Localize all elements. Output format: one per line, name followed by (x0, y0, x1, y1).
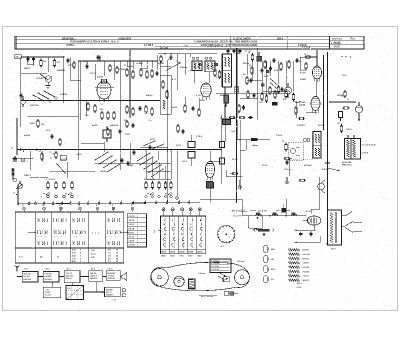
capacitor C6 (120, 158, 129, 166)
grid terminals (162, 208, 201, 216)
resistor R24 (282, 141, 287, 152)
svg-text:x 7n31 0a: x 7n31 0a (211, 260, 220, 262)
svg-text:3: 3 (229, 237, 230, 239)
cord drum (189, 279, 196, 289)
scattered value labels (24, 61, 352, 177)
svg-text:310275: 310275 (60, 159, 68, 161)
resistor R27 (295, 62, 307, 115)
svg-text:656.482: 656.482 (106, 288, 113, 291)
wire top bus right (158, 53, 217, 55)
svg-text:ajo n 750 mm: ajo n 750 mm (201, 296, 213, 298)
svg-text:2.3 K.1: 2.3 K.1 (129, 232, 135, 234)
svg-text:PU.: PU. (271, 279, 275, 281)
switch S4 arms (137, 140, 164, 177)
terminal circle top (237, 50, 240, 53)
svg-text:260 m: 260 m (297, 283, 303, 285)
svg-text:1.4 K.8: 1.4 K.8 (129, 240, 135, 243)
cord misc right (224, 291, 238, 295)
svg-text:39 64: 39 64 (274, 69, 280, 72)
svg-text:M5MM6: M5MM6 (57, 70, 66, 72)
wire right bus (324, 52, 328, 212)
svg-text:658760: 658760 (303, 258, 309, 260)
resistor R10 group (124, 105, 142, 122)
svg-text:4.03: 4.03 (72, 260, 76, 263)
wire vertical x81 (80, 61, 82, 120)
capacitor C4 (13, 156, 27, 163)
hatched box HB1 (235, 87, 239, 94)
cluster top mid-right (229, 116, 253, 119)
resistor R1 (40, 59, 46, 68)
capacitor C2 (19, 93, 22, 100)
svg-text:31: 31 (116, 261, 118, 263)
resistor R8 pair (140, 68, 148, 79)
svg-text:08: 08 (116, 258, 118, 260)
labels under row1 (0, 0, 1, 1)
component box K1 (339, 112, 343, 122)
svg-text:HH2.602: HH2.602 (24, 279, 31, 281)
wire mesh vertical (27, 54, 300, 203)
cap row under header (185, 46, 251, 54)
block arrows row1 (17, 276, 106, 278)
label TR1 below (342, 162, 352, 167)
junction row 2 (224, 60, 258, 87)
svg-text:9L5 40: 9L5 40 (306, 210, 312, 213)
ground G1 (46, 86, 51, 89)
svg-text:15c 3 7/8: 15c 3 7/8 (233, 215, 242, 217)
capacitor stack C13 (188, 135, 195, 166)
wire output top (200, 196, 320, 217)
svg-text:n826k6: n826k6 (118, 69, 126, 71)
resistor R21 (341, 90, 349, 109)
svg-text:78: 78 (116, 250, 118, 252)
cluster mid gap2 (177, 124, 185, 134)
svg-text:5pk84: 5pk84 (299, 104, 306, 107)
dial scale disc (217, 225, 236, 248)
svg-text:6k78n4: 6k78n4 (304, 164, 312, 167)
svg-text:64.29.32.2: 64.29.32.2 (332, 38, 343, 41)
resistor R12 pair (213, 67, 221, 79)
svg-text:... 35: ... 35 (45, 289, 49, 291)
svg-text:7083: 7083 (179, 256, 183, 258)
wire V3 anode (305, 50, 317, 66)
inductor L3 (269, 213, 278, 217)
block labels (24, 267, 112, 270)
svg-text:345p2n: 345p2n (180, 66, 188, 69)
svg-text:0.1 22 4n7: 0.1 22 4n7 (46, 178, 56, 181)
svg-text:3: 3 (80, 261, 81, 263)
svg-text:1.7 1 3 8: 1.7 1 3 8 (302, 47, 311, 49)
transistor Q1 (40, 74, 52, 85)
switch S2 arms (94, 151, 120, 172)
svg-text:7.3: 7.3 (108, 253, 111, 255)
cluster mid gap4 (50, 134, 68, 150)
label TR1 right (362, 145, 377, 155)
wire vertical x64 (63, 56, 65, 103)
svg-text:273n8V: 273n8V (36, 78, 44, 80)
resistor R3 (37, 119, 45, 128)
svg-text:p810: p810 (172, 107, 178, 109)
resistor R20 (292, 93, 300, 103)
svg-text:812236: 812236 (303, 250, 309, 252)
wire mesh horizontal (12, 49, 317, 180)
svg-text:ULTRA ...: ULTRA ... (66, 44, 77, 47)
svg-text:V9 0: V9 0 (342, 75, 347, 77)
diode D1 (285, 83, 292, 98)
svg-text:4: 4 (80, 252, 81, 255)
svg-text:36 6 .2: 36 6 .2 (106, 292, 112, 294)
svg-text:x.Moute: x.Moute (198, 261, 205, 264)
wire mid bus y170 (50, 155, 95, 178)
wire vert x78 (77, 61, 79, 160)
svg-text:1721: 1721 (176, 145, 182, 147)
cluster R17 (275, 85, 284, 96)
block diagram row1 (22, 271, 120, 283)
title block table (15, 34, 364, 50)
terminal left disc (13, 158, 17, 162)
legend box (210, 259, 231, 273)
wire top-left bus (21, 57, 64, 127)
svg-text:.6n15: .6n15 (76, 154, 82, 156)
svg-text:7URAANIIPPA 8 ULTRA N 637M.: 7URAANIIPPA 8 ULTRA N 637M.3 . N.A. 3 (70, 41, 119, 44)
svg-text:733z.75: 733z.75 (66, 273, 73, 275)
svg-text:XX 1: XX 1 (24, 268, 28, 270)
blob smear3 (261, 84, 264, 87)
svg-text:2940196: 2940196 (90, 277, 97, 280)
contact cluster CC1 (41, 193, 72, 199)
svg-text:ECH81: ECH81 (97, 77, 104, 79)
svg-text:21.03: 21.03 (91, 254, 96, 256)
dial switch grid (161, 216, 206, 258)
coil list extra text (297, 283, 303, 289)
svg-text:1M673: 1M673 (24, 175, 31, 177)
speaker switch lines (342, 212, 363, 233)
svg-text:A 89314878: A 89314878 (118, 37, 132, 40)
svg-text:16328: 16328 (179, 252, 184, 254)
svg-text:4.4 T.R: 4.4 T.R (129, 227, 135, 230)
terminal T2 (286, 177, 289, 184)
svg-text:n 73: n 73 (112, 300, 116, 302)
transistor Q2 (318, 177, 325, 196)
svg-text:0.2 mH 2.5Ω B: 0.2 mH 2.5Ω B (362, 145, 377, 147)
svg-text:326 8: 326 8 (346, 129, 352, 131)
resistor R14 (248, 52, 254, 62)
capacitor C1 antenna input (26, 56, 35, 65)
svg-text:M27M: M27M (337, 95, 343, 97)
band switch mechanism (241, 209, 274, 237)
svg-text:7054H6: 7054H6 (303, 270, 310, 273)
resistor R11 group (145, 105, 153, 122)
cluster mid gap3 (126, 120, 135, 128)
circles pair (304, 139, 311, 142)
block diagram row2 (43, 286, 120, 300)
svg-text:n8V9p: n8V9p (100, 171, 107, 173)
capacitor C9 box (272, 102, 277, 105)
cluster R15 (236, 104, 245, 115)
svg-text:1u 1 uu: 1u 1 uu (160, 48, 169, 50)
svg-text:0770: 0770 (150, 139, 156, 141)
marks top right (340, 56, 351, 61)
resistor R6 pair (85, 102, 96, 117)
antenna Y (15, 265, 20, 272)
tube V3 (312, 66, 321, 82)
IF can IFT4 (313, 132, 321, 159)
svg-text:67 06: 67 06 (300, 73, 306, 75)
svg-text:..68mm: ..68mm (303, 276, 310, 278)
svg-text:1.2 K.3: 1.2 K.3 (129, 224, 135, 226)
wire bottom terminal line (18, 203, 200, 204)
svg-text:27n3: 27n3 (262, 165, 268, 167)
cluster R16 (259, 92, 268, 104)
svg-text:M6217: M6217 (24, 68, 31, 70)
inductor L2 (256, 213, 262, 216)
wire IFT to V2 (194, 71, 209, 84)
svg-text:pMpp: pMpp (252, 145, 258, 147)
tube V1 (97, 60, 111, 106)
svg-text:57986: 57986 (188, 252, 193, 254)
svg-text:7: 7 (80, 258, 81, 260)
switch S1 wafer (32, 90, 57, 102)
block links row2 (52, 282, 105, 293)
svg-text:7k171: 7k171 (90, 73, 97, 75)
svg-text:2.3: 2.3 (108, 261, 111, 263)
resistor R18 top (304, 54, 312, 58)
capacitor C14 (260, 66, 272, 73)
wire fb2 (295, 236, 321, 243)
component blob (257, 52, 262, 61)
svg-text:0.3Ω B: 0.3Ω B (362, 153, 369, 155)
electrolytic C3 (21, 96, 25, 107)
svg-text:4.53: 4.53 (72, 249, 76, 252)
svg-text:M971: M971 (30, 123, 36, 125)
table arrows (28, 231, 129, 233)
wire vertical x167 (167, 62, 169, 203)
tube V4 (311, 79, 320, 114)
svg-text:2: 2 (80, 250, 81, 252)
resistor bank RB1 (46, 178, 73, 198)
component dark box (223, 120, 231, 125)
svg-text:2.1 K.R: 2.1 K.R (129, 216, 136, 218)
block misc right (112, 289, 125, 302)
svg-text:TIl.a: TIl.a (350, 38, 355, 40)
coil list (289, 249, 311, 282)
svg-text:16.9340: 16.9340 (108, 275, 115, 278)
wire y176 stub (226, 170, 242, 177)
wire fb1 (295, 229, 317, 231)
cluster small (230, 172, 238, 174)
svg-text:V 803: V 803 (216, 77, 222, 79)
resistor R25 on wire (251, 138, 257, 141)
svg-text:3455: 3455 (197, 255, 201, 258)
junction rings bottom line (17, 200, 190, 205)
svg-text:m0.H96: m0.H96 (303, 267, 310, 269)
svg-text:7.03: 7.03 (72, 253, 76, 255)
svg-text:93483: 93483 (300, 78, 307, 81)
svg-text:MW.: MW. (271, 249, 275, 251)
cluster volume pot (13, 178, 22, 195)
cluster top gap3 (264, 58, 299, 71)
cluster top gap2 (160, 53, 173, 63)
wire mid bus y150 (17, 149, 222, 151)
wire y139 (237, 120, 270, 140)
IF transformer IFT1 (192, 57, 202, 70)
side table (127, 214, 146, 247)
resistor R28 group (184, 97, 200, 117)
svg-text:C LTM 3: C LTM 3 (144, 44, 154, 47)
mains transformer TR1 (345, 135, 361, 159)
svg-text:zkH342: zkH342 (45, 275, 52, 278)
cluster top gap4 (247, 86, 276, 99)
table lower row text (19, 249, 118, 264)
svg-text:3654z1: 3654z1 (66, 277, 72, 280)
cluster mid gap1 (107, 128, 122, 136)
electrolytic C8 (224, 95, 229, 107)
svg-text:3.8: 3.8 (108, 250, 111, 252)
resistor R13 (243, 74, 253, 85)
svg-text:3766V4: 3766V4 (297, 124, 305, 127)
svg-text:2.1 K.R: 2.1 K.R (129, 245, 136, 247)
resistor R22 (337, 123, 343, 133)
cluster mid caps (132, 145, 151, 155)
output transformer TR2 (327, 210, 342, 251)
coil L1 (12, 168, 15, 180)
capacitor C12 (299, 232, 312, 237)
svg-text:2 78.6: 2 78.6 (196, 136, 203, 138)
wire vertical x257 (256, 48, 258, 120)
contact cluster CC2 (147, 193, 171, 196)
junction dots right (323, 56, 328, 102)
terminal T3 (238, 180, 241, 188)
svg-text:38721: 38721 (161, 252, 166, 254)
resistor bank RB2 (144, 179, 172, 198)
svg-text:H45 86: H45 86 (90, 272, 96, 275)
cluster top gap1 (66, 58, 75, 69)
wire vertical x225 (224, 87, 226, 118)
svg-text:5H8.z69: 5H8.z69 (24, 274, 31, 276)
resistor R19 (283, 90, 287, 102)
wire vertical x130 (129, 50, 131, 118)
svg-text:. . . . .: . . . . . (328, 34, 334, 36)
svg-text:Hk16z0z: Hk16z0z (45, 279, 53, 281)
component C11 (299, 117, 305, 119)
dial cord loop (151, 262, 250, 290)
svg-text:7 4: 7 4 (100, 103, 103, 106)
svg-text:03791: 03791 (170, 252, 175, 254)
svg-text:7693: 7693 (170, 256, 174, 258)
junction row (99, 60, 152, 61)
switch position table (15, 212, 124, 263)
tube V6 (303, 210, 321, 230)
curved arrow (253, 229, 259, 231)
svg-text:7: 7 (223, 232, 224, 234)
svg-text:8H9373: 8H9373 (303, 280, 310, 282)
svg-text:4.8: 4.8 (108, 257, 111, 260)
dotted line h (288, 158, 313, 160)
svg-text:V377: V377 (125, 134, 131, 136)
svg-text:51 25: 51 25 (232, 159, 238, 161)
tube V7 (205, 162, 214, 189)
label 20 (15, 55, 22, 59)
svg-text:nV484: nV484 (136, 62, 143, 65)
svg-text:k2..3z2: k2..3z2 (24, 276, 30, 278)
svg-text:1M: 1M (337, 123, 340, 125)
speaker block (120, 273, 126, 281)
wire left section bottom (21, 101, 160, 117)
svg-text:x 7n31 0a: x 7n31 0a (211, 263, 220, 265)
svg-text:384 8: 384 8 (277, 37, 284, 40)
svg-text:MV.aste: MV.aste (238, 260, 245, 263)
svg-text:.7.p6: .7.p6 (230, 131, 236, 133)
svg-text:0.32: 0.32 (91, 257, 95, 259)
capacitor C15 (96, 55, 99, 62)
note lines (232, 210, 281, 219)
svg-text:a: a (41, 196, 42, 198)
svg-text:2575V: 2575V (68, 65, 75, 67)
resistor R29 (109, 64, 118, 74)
inductor L4 (291, 213, 297, 216)
svg-text:x 7n31 0a: x 7n31 0a (211, 269, 220, 271)
svg-text:45c B 7/8: 45c B 7/8 (258, 210, 268, 213)
svg-text:13: 13 (116, 253, 118, 255)
wire magic-eye feed (329, 101, 356, 103)
label V4 (299, 102, 306, 107)
svg-text:XX 5: XX 5 (108, 268, 112, 270)
svg-text:61 595: 61 595 (45, 292, 51, 294)
svg-text:x 7n31 0a: x 7n31 0a (211, 266, 220, 268)
svg-text:240 V: 240 V (331, 248, 337, 251)
svg-text:99468V0: 99468V0 (106, 294, 114, 297)
svg-text:z8501.4: z8501.4 (90, 275, 98, 278)
resistor R5 group (100, 109, 115, 120)
svg-text:50 1n 3n 50: 50 1n 3n 50 (144, 179, 156, 181)
dashed box det (288, 143, 303, 161)
table terminals (23, 205, 134, 212)
magic eye V5 (355, 102, 362, 121)
wire top bus mid (78, 55, 158, 61)
wire left HT line (21, 73, 47, 75)
IF transformer IFT2 (178, 57, 215, 72)
svg-text:712p k: 712p k (284, 169, 292, 171)
svg-text:3.66H9: 3.66H9 (303, 263, 309, 265)
svg-text:XX 2: XX 2 (45, 268, 49, 270)
svg-text:3 Roste: 3 Roste (189, 288, 196, 291)
tube V2 (200, 83, 211, 102)
IF can IFT3 (223, 54, 232, 87)
svg-text:1.43: 1.43 (91, 249, 95, 252)
svg-text:1 Reuna: 1 Reuna (198, 273, 206, 275)
svg-text:4zHz330: 4zHz330 (66, 275, 73, 278)
resistor R7 pair (124, 64, 134, 79)
svg-text:.4696: .4696 (128, 164, 134, 167)
svg-text:44.58: 44.58 (92, 124, 98, 127)
svg-text:k.5H.6H: k.5H.6H (45, 274, 53, 276)
svg-text:XX 3: XX 3 (66, 268, 70, 270)
blob smear1 (214, 63, 218, 66)
svg-text:131nk: 131nk (276, 135, 283, 137)
svg-text:5kH5698: 5kH5698 (108, 273, 116, 275)
resistor R4 (41, 151, 57, 161)
svg-text:4p419: 4p419 (24, 134, 31, 137)
svg-text:8727: 8727 (188, 256, 192, 258)
capacitor C7 (84, 60, 89, 69)
component on left line C10 (220, 142, 225, 165)
wire x221 mid (220, 115, 222, 184)
cord labels (189, 260, 244, 298)
svg-text:4896k6: 4896k6 (220, 94, 228, 97)
svg-text:1M: 1M (43, 61, 46, 63)
svg-text:8k39p: 8k39p (243, 63, 250, 65)
shield box coil (160, 75, 171, 114)
label band switch (30, 104, 39, 107)
